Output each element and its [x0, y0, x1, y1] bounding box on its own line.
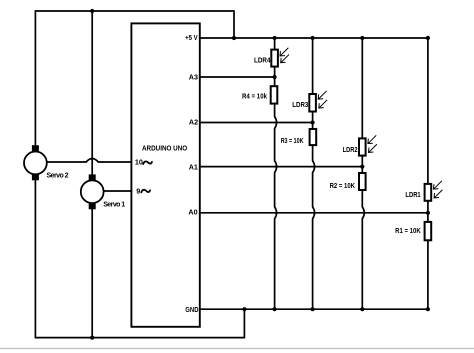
- svg-text:A2: A2: [189, 117, 198, 126]
- wire: servo1 vertical down to bottom bus: [91, 209, 93, 337]
- branch2 wire: R3 to GND rail with hops over A1,A0: [313, 145, 315, 309]
- svg-text:GND: GND: [185, 305, 198, 314]
- node: GND rail branch4 bottom: [426, 307, 430, 311]
- node: A1 junction on branch3: [360, 165, 364, 169]
- node: +5V rail meets outer top bus: [232, 36, 236, 40]
- svg-text:LDR3: LDR3: [292, 102, 308, 109]
- branch1 wire: A3 node to R4: [274, 77, 276, 86]
- node: A3 junction on branch1: [273, 75, 277, 79]
- node: GND rail branch2 bottom: [311, 307, 315, 311]
- wire: GND rail from Arduino to branch4: [200, 308, 428, 310]
- svg-text:9: 9: [136, 186, 140, 195]
- svg-text:+5 V: +5 V: [185, 33, 198, 42]
- pin 10 tilde: [143, 161, 152, 164]
- branch3 wire: +5V to LDR2: [361, 38, 363, 138]
- svg-text:Servo 1: Servo 1: [103, 202, 125, 209]
- svg-text:Servo 2: Servo 2: [47, 172, 69, 179]
- node: A2 junction on branch2: [311, 120, 315, 124]
- wire: servo1 vertical from top bus down to servo1: [91, 11, 93, 174]
- photoresistor LDR1 body: [425, 184, 432, 201]
- wire: outer bottom bus from servo2 to GND rail: [35, 180, 244, 338]
- node: +5V rail branch1 top: [273, 36, 277, 40]
- wire: A2 pin to branch2: [200, 122, 313, 124]
- branch4 wire: +5V corner down to LDR1: [427, 38, 429, 184]
- wire: A1 pin to branch3: [200, 166, 362, 168]
- wire: outer top bus from servo2 to +5V rail: [35, 11, 234, 146]
- branch2 wire: LDR3 to A2 node: [312, 112, 314, 123]
- node: GND rail to bottom bus junction: [242, 307, 246, 311]
- branch1 wire: LDR4 to A3 node: [274, 67, 276, 77]
- svg-text:LDR2: LDR2: [343, 147, 358, 154]
- photoresistor LDR2 arrows: [368, 136, 377, 153]
- wire: +5V rail from Arduino to branch 4: [200, 37, 428, 39]
- pin 9 tilde: [141, 190, 150, 193]
- node: junction servo1 vertical on bottom bus: [90, 336, 94, 340]
- photoresistor LDR3 body: [309, 94, 316, 112]
- branch4 wire: LDR1 to A0 node: [427, 201, 429, 213]
- svg-text:R1 = 10K: R1 = 10K: [395, 228, 421, 235]
- node: +5V rail branch2 top: [311, 36, 315, 40]
- node: A0 junction on branch4: [426, 211, 430, 215]
- node: +5V rail branch4 corner: [426, 36, 430, 40]
- resistor R4 body: [271, 86, 278, 103]
- resistor R2 body: [359, 173, 366, 190]
- svg-text:R3 = 10K: R3 = 10K: [281, 138, 304, 145]
- branch4 wire: A0 node to R1: [427, 213, 429, 222]
- photoresistor LDR1 arrows: [434, 181, 443, 198]
- photoresistor LDR2 body: [359, 138, 366, 155]
- branch1 wire: +5V to LDR4: [274, 38, 276, 50]
- photoresistor LDR3 arrows: [318, 91, 327, 108]
- branch3 wire: R2 to GND rail with hop over A0: [362, 190, 364, 309]
- branch2 wire: A2 node to R3: [312, 123, 314, 130]
- svg-text:10: 10: [135, 158, 143, 167]
- decorative page rule (bottom grey line): [0, 348, 474, 350]
- node: GND rail branch3 bottom: [360, 307, 364, 311]
- branch3 wire: A1 node to R2: [361, 167, 363, 173]
- branch1 wire: R4 to GND rail with hops over A2,A1,A0: [275, 104, 277, 310]
- photoresistor LDR4 arrows: [280, 48, 289, 63]
- wire: servo2 signal to pin 10 with hop over servo1 vertical: [47, 159, 131, 163]
- servo M2 motor circle: [24, 152, 47, 175]
- svg-text:A1: A1: [189, 163, 198, 172]
- servo M2 connector top (+): [32, 145, 39, 152]
- branch4 wire: R1 to GND rail: [427, 240, 429, 309]
- servo M2 connector bottom (-): [32, 174, 39, 181]
- svg-text:A3: A3: [189, 72, 198, 81]
- servo M1 connector bottom (-): [89, 203, 96, 210]
- svg-text:R2 = 10K: R2 = 10K: [330, 183, 355, 190]
- resistor R1 body: [425, 222, 432, 240]
- wire: servo1 signal to pin 9: [104, 190, 131, 192]
- svg-text:LDR4: LDR4: [254, 57, 271, 64]
- servo M1 connector top (+): [89, 174, 96, 181]
- photoresistor LDR4 body: [271, 50, 278, 67]
- wire: A3 pin to branch1: [200, 76, 275, 78]
- svg-text:ARDUINO UNO: ARDUINO UNO: [142, 143, 187, 152]
- branch3 wire: LDR2 to A1 node: [361, 156, 363, 167]
- branch2 wire: +5V to LDR3: [312, 38, 314, 94]
- node: junction servo1 vertical on top bus: [90, 9, 94, 13]
- svg-text:A0: A0: [188, 208, 197, 217]
- node: +5V rail branch3 top: [360, 36, 364, 40]
- Arduino UNO U1 body: [131, 23, 199, 326]
- wire: A0 pin to branch4: [200, 212, 428, 214]
- servo M1 motor circle: [81, 180, 104, 203]
- resistor R3 body: [310, 129, 317, 145]
- svg-text:LDR1: LDR1: [405, 192, 420, 199]
- svg-text:R4 = 10k: R4 = 10k: [242, 93, 267, 100]
- node: GND rail branch1 bottom: [273, 307, 277, 311]
